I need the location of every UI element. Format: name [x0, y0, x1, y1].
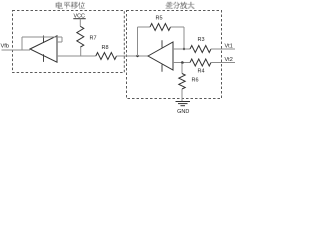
- wire: U1 minus input to R8: [57, 55, 96, 57]
- node junction: feedback tap: [136, 55, 138, 57]
- svg-text:R3: R3: [198, 37, 205, 43]
- resistor R6: [179, 74, 185, 90]
- wire: feedback right vertical to U2 top pin: [183, 27, 185, 49]
- svg-text:Vfb: Vfb: [1, 44, 10, 50]
- resistor R7: [77, 26, 84, 47]
- wire: R4 to Vt2 output: [211, 62, 235, 64]
- svg-text:GND: GND: [177, 109, 189, 115]
- wire: R6 to ground: [181, 89, 183, 101]
- op-amp U2 - input tick: [161, 64, 163, 71]
- wire: junction down to R6: [181, 63, 183, 74]
- wire: feedback top left segment: [138, 26, 151, 28]
- power VCC rail bar: [73, 18, 85, 20]
- node junction: R6 tap: [181, 61, 184, 64]
- op-amp U1 (level-shift buffer): [30, 36, 57, 62]
- op-amp U1 - input tick: [43, 54, 45, 62]
- resistor R5: [150, 24, 171, 31]
- dashed box: differential amplifier stage: [127, 11, 222, 99]
- node junction: feedback joins R3 wire: [183, 48, 185, 50]
- resistor R4: [190, 59, 211, 66]
- wire: U1 top pin stub: [57, 41, 62, 43]
- op-amp U2 + input tick: [161, 40, 163, 47]
- svg-text:R4: R4: [198, 68, 205, 74]
- svg-text:Vt1: Vt1: [225, 44, 233, 50]
- svg-text:R8: R8: [102, 45, 109, 51]
- wire: R3 to Vt1 output: [211, 48, 235, 50]
- wire: R8 to op-amp U2 input: [117, 55, 149, 57]
- svg-text:Vt2: Vt2: [225, 57, 233, 63]
- wire: feedback top right segment: [171, 26, 185, 28]
- op-amp U1 + input tick: [43, 36, 45, 43]
- wire: U1 feedback left vertical to output: [21, 37, 23, 50]
- wire: U1 feedback right vertical: [61, 37, 63, 42]
- svg-text:R5: R5: [156, 15, 163, 21]
- wire: VCC to R7: [79, 19, 81, 27]
- wire: U1 feedback top: [22, 36, 62, 38]
- ground symbol: [176, 101, 191, 103]
- title: 差分放大 (differential amplification): [166, 2, 195, 9]
- op-amp U2 (differential amplifier): [148, 42, 173, 70]
- wire: U2 top pin to R3: [173, 48, 190, 50]
- resistor R8: [96, 53, 117, 60]
- wire: R7 to main wire: [80, 47, 82, 56]
- wire: U2 bottom pin to R4: [173, 62, 190, 64]
- resistor R3: [190, 46, 211, 53]
- wire: feedback left vertical: [137, 27, 139, 56]
- svg-text:R6: R6: [192, 77, 199, 83]
- title: 电平移位 (level shift): [56, 2, 85, 9]
- dashed box: level-shift stage: [13, 11, 125, 73]
- svg-text:R7: R7: [90, 35, 97, 41]
- wire: Vfb input to op-amp U1 output: [2, 49, 31, 51]
